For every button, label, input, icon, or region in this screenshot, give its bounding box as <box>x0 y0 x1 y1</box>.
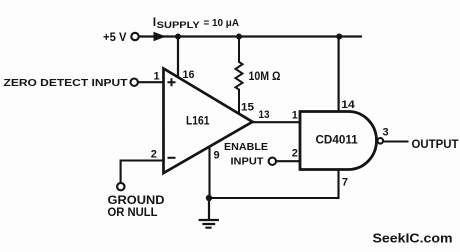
+5V terminal circle <box>131 33 138 40</box>
junction: ground node <box>206 195 212 201</box>
svg-text:9: 9 <box>214 149 220 161</box>
svg-text:OUTPUT: OUTPUT <box>412 139 459 151</box>
svg-text:15: 15 <box>241 102 254 114</box>
svg-text:10M Ω: 10M Ω <box>249 71 281 83</box>
wire: op-amp output pin 13 to gate pin 1 <box>250 121 301 123</box>
op-amp U1 L161 triangle <box>164 69 253 174</box>
junction: supply rail to resistor <box>236 34 242 40</box>
wire: supply rail down to pin 16 <box>177 37 179 81</box>
svg-text:GROUND: GROUND <box>108 195 165 207</box>
svg-text:2: 2 <box>292 147 298 159</box>
current flow arrowhead on supply rail <box>154 32 167 41</box>
wire: enable input to gate pin 2 <box>276 160 301 162</box>
svg-text:+5 V: +5 V <box>103 30 127 44</box>
svg-text:L161: L161 <box>186 114 210 128</box>
svg-text:16: 16 <box>183 69 195 81</box>
svg-text:SeekIC.com: SeekIC.com <box>373 231 453 246</box>
wire: op-amp pin 9 down to ground junction <box>208 144 210 198</box>
resistor R1 10M (wire + zigzag to op-amp pin 15) <box>236 37 243 117</box>
svg-text:7: 7 <box>342 177 348 189</box>
wire: op-amp pin 2 to ground/null terminal <box>121 161 164 184</box>
svg-text:= 10 μA: = 10 μA <box>204 17 240 29</box>
svg-text:2: 2 <box>151 148 157 160</box>
svg-text:14: 14 <box>341 99 355 111</box>
junction: supply rail to op-amp pin 16 <box>175 34 181 40</box>
wire: gate pin 3 to output <box>383 140 408 142</box>
ZERO DETECT INPUT terminal circle <box>131 79 138 86</box>
svg-text:1: 1 <box>292 109 298 121</box>
ground symbol <box>199 198 219 228</box>
svg-text:ZERO DETECT INPUT: ZERO DETECT INPUT <box>4 77 129 89</box>
svg-text:1: 1 <box>154 71 160 83</box>
ENABLE INPUT terminal circle <box>269 158 276 165</box>
svg-text:3: 3 <box>383 126 389 138</box>
svg-text:OR NULL: OR NULL <box>108 207 158 219</box>
op-amp + input symbol <box>168 78 176 86</box>
gate output inverting bubble <box>378 138 384 144</box>
wire: +5V supply rail <box>139 35 363 37</box>
svg-text:SUPPLY: SUPPLY <box>157 20 201 31</box>
op-amp - input symbol <box>168 157 176 159</box>
svg-text:CD4011: CD4011 <box>316 135 359 147</box>
wire: zero detect input to op-amp pin 1 <box>138 81 164 83</box>
junction: supply rail to gate pin 14 <box>336 34 342 40</box>
NAND gate U2 CD4011 body <box>300 112 377 170</box>
svg-text:ENABLE: ENABLE <box>224 141 268 153</box>
svg-text:I: I <box>153 15 156 29</box>
svg-text:INPUT: INPUT <box>231 156 265 168</box>
wire: gate pin 7 to ground junction <box>210 168 339 198</box>
wire: supply rail down to gate pin 14 <box>338 37 340 114</box>
svg-text:13: 13 <box>259 109 270 121</box>
GROUND OR NULL terminal circle <box>117 183 124 190</box>
